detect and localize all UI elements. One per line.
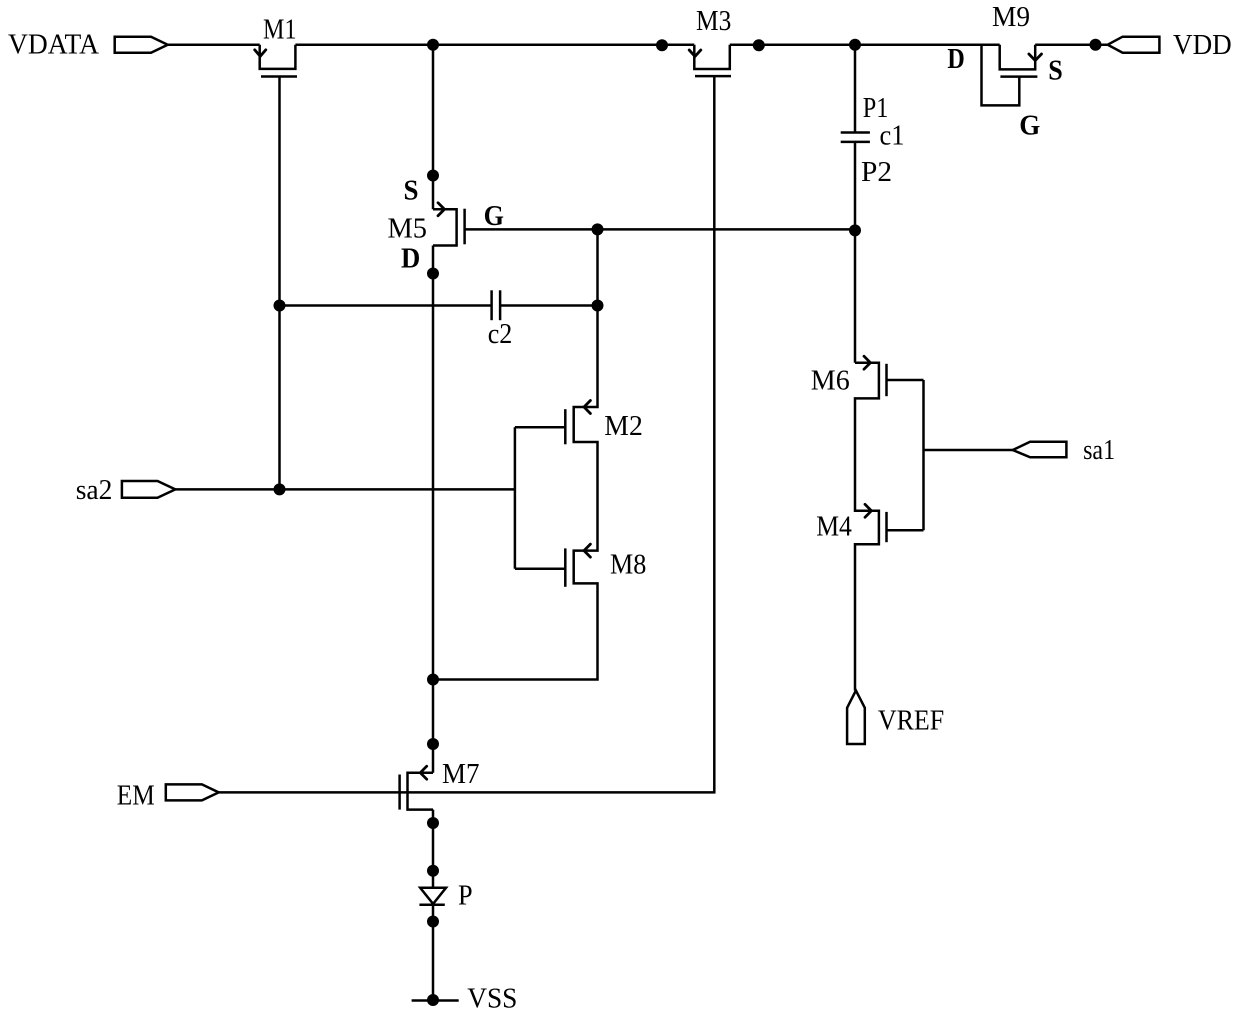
svg-text:S: S bbox=[404, 175, 419, 206]
wire main vertical M5 to M7 bbox=[432, 246, 435, 773]
svg-text:M4: M4 bbox=[816, 512, 852, 543]
transistor M1 gate bar bbox=[261, 75, 297, 78]
wire top from VDATA to M1 bbox=[168, 43, 260, 46]
svg-text:P: P bbox=[458, 881, 473, 912]
transistor M5 gate bar bbox=[463, 209, 466, 245]
svg-text:G: G bbox=[484, 201, 505, 232]
arrow M7 source bbox=[420, 766, 426, 779]
transistor M9 body bbox=[1000, 45, 1035, 70]
diode P cathode bar bbox=[419, 904, 444, 907]
junction node c2 left bbox=[274, 300, 286, 312]
svg-text:sa1: sa1 bbox=[1083, 435, 1115, 466]
arrow M6 source bbox=[864, 356, 870, 369]
transistor M6 gate bar bbox=[885, 364, 888, 396]
input flag VREF bbox=[847, 691, 865, 745]
wire c2 left bbox=[280, 304, 492, 307]
transistor M7 gate bar bbox=[398, 775, 401, 810]
svg-text:D: D bbox=[401, 244, 420, 275]
capacitor c2 right plate bbox=[499, 290, 502, 320]
arrow M1 source bbox=[255, 50, 266, 57]
capacitor c1 plate P1 bbox=[841, 131, 870, 134]
capacitor c2 left plate bbox=[490, 290, 493, 320]
svg-text:M1: M1 bbox=[263, 15, 297, 46]
svg-text:D: D bbox=[947, 44, 964, 75]
junction node top-left bbox=[427, 39, 439, 51]
wire M1 gate lead down to sa2 bbox=[278, 77, 281, 490]
transistor M3 body bbox=[694, 45, 730, 69]
wire sa1 lead bbox=[924, 449, 1013, 452]
wire sa2 bbox=[175, 488, 515, 491]
svg-text:VDATA: VDATA bbox=[8, 30, 99, 61]
junction node S of M5 bbox=[427, 170, 439, 182]
wire M9 gate to drain loop bbox=[982, 45, 1020, 106]
svg-text:P2: P2 bbox=[861, 157, 892, 188]
input flag VDD bbox=[1108, 37, 1160, 53]
svg-text:VDD: VDD bbox=[1173, 30, 1232, 61]
svg-text:M5: M5 bbox=[388, 213, 428, 244]
svg-text:M7: M7 bbox=[442, 759, 480, 790]
wire main vertical M7 to diode P bbox=[432, 810, 435, 888]
wire M3 gate lead down and EM wire bbox=[219, 76, 715, 792]
wire top from M3 to M9 bbox=[730, 43, 1000, 46]
arrow M8 source bbox=[584, 544, 590, 557]
transistor M5 body bbox=[433, 209, 457, 245]
wire diode to VSS bbox=[432, 905, 435, 1001]
input flag VDATA bbox=[115, 37, 168, 53]
transistor M3 gate bar bbox=[695, 75, 731, 78]
wire main vertical from top to M5 bbox=[432, 45, 435, 210]
junction node c2 right bbox=[592, 300, 604, 312]
junction node top of c1 bbox=[849, 39, 861, 51]
input flag sa2 bbox=[122, 481, 175, 498]
wire M4 gate lead bbox=[887, 529, 924, 532]
svg-text:VSS: VSS bbox=[467, 983, 517, 1014]
wire c1 to M6 bbox=[854, 142, 857, 363]
wire c1 branch upper bbox=[854, 45, 857, 133]
junction node above M7 bbox=[427, 738, 439, 750]
svg-text:EM: EM bbox=[117, 781, 155, 812]
junction node sa2 bbox=[274, 483, 286, 495]
junction node below M7 bbox=[427, 817, 439, 829]
junction node VSS bbox=[427, 994, 439, 1006]
svg-text:c2: c2 bbox=[488, 319, 513, 350]
arrow M2 source bbox=[584, 401, 590, 414]
junction node below diode bbox=[427, 916, 439, 928]
svg-text:M9: M9 bbox=[992, 2, 1030, 33]
capacitor c1 plate P2 bbox=[841, 141, 870, 144]
wire gate connect M6-M4 bbox=[922, 380, 925, 530]
transistor M1 body bbox=[260, 45, 296, 69]
transistor M8 gate bar bbox=[564, 548, 567, 586]
input flag sa1 bbox=[1013, 442, 1067, 458]
svg-text:M3: M3 bbox=[696, 6, 731, 37]
transistor M9 gate bar bbox=[1000, 75, 1037, 78]
svg-text:c1: c1 bbox=[880, 121, 905, 152]
arrow M3 source bbox=[689, 50, 701, 56]
junction node above diode bbox=[427, 865, 439, 877]
arrow M4 source bbox=[865, 504, 871, 517]
svg-text:P1: P1 bbox=[863, 93, 889, 124]
transistor M6 body with M4 body chain to VREF bbox=[855, 363, 879, 691]
diode P triangle bbox=[420, 888, 446, 904]
svg-text:G: G bbox=[1019, 111, 1040, 142]
wire node G down through M2 M8 bodies bbox=[433, 229, 598, 679]
wire c2 right bbox=[500, 304, 597, 307]
junction node G wire right P2 bbox=[849, 224, 861, 236]
transistor M2 gate bar bbox=[564, 409, 567, 444]
junction node left of M3 bbox=[656, 39, 668, 51]
wire top from M1 to M3 bbox=[295, 43, 694, 46]
svg-text:M2: M2 bbox=[604, 411, 643, 442]
svg-text:S: S bbox=[1048, 56, 1063, 87]
wire M6 gate lead bbox=[887, 379, 924, 382]
svg-text:M6: M6 bbox=[811, 366, 850, 397]
wire gate connect M2-M8 bbox=[514, 427, 517, 568]
arrow M5 source bbox=[438, 203, 445, 216]
junction node G wire left bbox=[592, 223, 604, 235]
input flag EM bbox=[166, 784, 219, 800]
transistor M7 body bbox=[408, 773, 434, 810]
svg-text:M8: M8 bbox=[610, 549, 646, 580]
junction node right of M3 bbox=[753, 39, 765, 51]
wire M5 gate to node G bbox=[465, 228, 855, 231]
VSS terminal bar bbox=[412, 999, 459, 1002]
junction node at VDD bbox=[1090, 39, 1102, 51]
transistor M4 gate bar bbox=[885, 512, 888, 542]
arrow M9 source bbox=[1029, 54, 1042, 61]
junction node D of M5 bbox=[427, 268, 439, 280]
wire M2 gate lead bbox=[515, 426, 565, 429]
wire top from M9 to VDD bbox=[1035, 43, 1108, 46]
junction node M8 return bbox=[427, 674, 439, 686]
svg-text:VREF: VREF bbox=[878, 706, 944, 737]
wire M8 gate lead bbox=[515, 567, 565, 570]
svg-text:sa2: sa2 bbox=[76, 475, 113, 506]
